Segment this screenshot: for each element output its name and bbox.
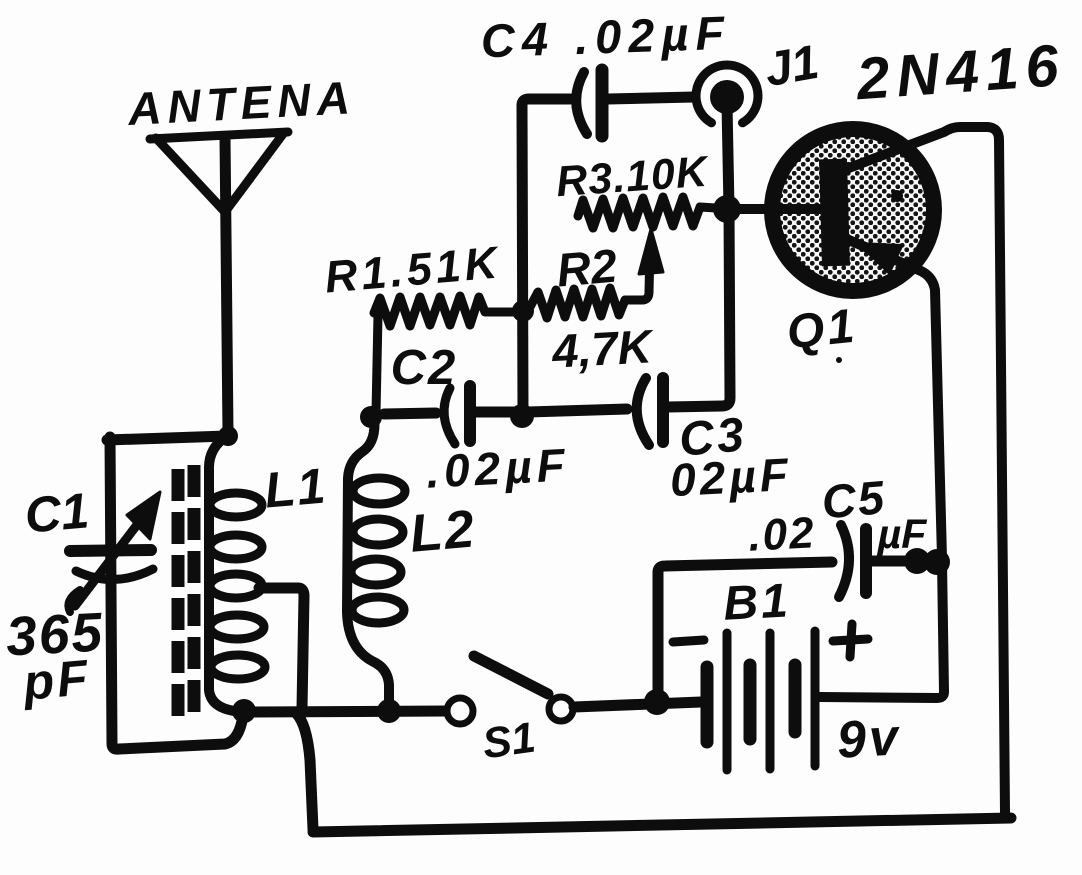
svg-text:.02µF: .02µF: [425, 438, 571, 497]
svg-text:J1: J1: [761, 36, 823, 97]
svg-text:.02: .02: [747, 508, 817, 560]
svg-text:C1: C1: [23, 482, 92, 543]
svg-text:L2: L2: [407, 499, 478, 564]
svg-text:L1: L1: [262, 457, 329, 518]
svg-text:R2: R2: [555, 238, 619, 296]
svg-text:B1: B1: [722, 574, 792, 630]
svg-text:9v: 9v: [836, 708, 903, 769]
svg-text:C2: C2: [391, 341, 458, 395]
svg-text:4,7K: 4,7K: [550, 319, 656, 377]
svg-text:pF: pF: [19, 649, 93, 711]
svg-text:02µF: 02µF: [669, 448, 793, 506]
svg-text:Q1: Q1: [784, 299, 859, 359]
svg-text:C4 .02µF: C4 .02µF: [480, 6, 732, 68]
svg-text:S1: S1: [480, 714, 539, 769]
svg-text:µF: µF: [877, 511, 928, 557]
